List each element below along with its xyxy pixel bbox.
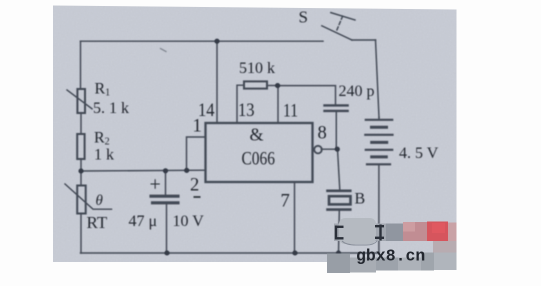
svg-text:C066: C066 bbox=[242, 150, 276, 170]
wire 510k right lead bbox=[267, 85, 278, 87]
node R2/RT bbox=[78, 168, 83, 173]
node top/pin14 bbox=[214, 39, 219, 44]
watermark pink block lower right bbox=[433, 241, 457, 253]
watermark bottom band bbox=[327, 253, 457, 274]
switch S second pole tick bbox=[331, 13, 355, 20]
wire bottom rail bbox=[81, 252, 380, 254]
svg-text:13: 13 bbox=[238, 101, 255, 121]
svg-text:θ: θ bbox=[96, 193, 104, 209]
svg-text:&: & bbox=[250, 125, 264, 145]
node C1 bottom bbox=[164, 250, 169, 255]
svg-text:1: 1 bbox=[193, 117, 202, 137]
capacitor C1 47u plates bbox=[151, 196, 178, 203]
svg-text:RT: RT bbox=[87, 213, 108, 232]
wire node to buzzer bbox=[338, 149, 340, 190]
switch S linkage dashed bbox=[336, 16, 342, 31]
svg-text:4. 5 V: 4. 5 V bbox=[399, 145, 439, 162]
capacitor C2 240p bbox=[325, 105, 348, 111]
svg-text:7: 7 bbox=[281, 192, 290, 212]
wire pin7 bbox=[294, 182, 296, 253]
pin 8 bubble bbox=[314, 146, 322, 154]
wire top rail bbox=[81, 40, 324, 42]
resistor R2 bbox=[77, 134, 84, 159]
buzzer B bbox=[328, 191, 351, 210]
wire node to RT bbox=[80, 171, 82, 186]
node buzzer bottom bbox=[336, 250, 341, 255]
wire left rail upper bbox=[80, 41, 82, 89]
label minus C1 bbox=[194, 196, 201, 198]
svg-text:1 k: 1 k bbox=[94, 147, 114, 164]
watermark clamp mark right bbox=[375, 225, 384, 241]
svg-text:47 μ: 47 μ bbox=[129, 213, 158, 230]
svg-text:510 k: 510 k bbox=[239, 60, 275, 77]
wire C2 to pin8 node bbox=[335, 112, 337, 149]
svg-text:8: 8 bbox=[318, 124, 327, 144]
ic U1 C066 body bbox=[206, 123, 313, 182]
svg-text:5. 1 k: 5. 1 k bbox=[93, 100, 129, 117]
wire pin11 bbox=[277, 86, 279, 123]
watermark mosaic band bbox=[334, 218, 457, 245]
capacitor C1 47u leads bbox=[165, 171, 167, 195]
wire battery to bottom rail bbox=[378, 164, 380, 253]
wire top rail right of switch bbox=[352, 39, 376, 41]
svg-text:10 V: 10 V bbox=[173, 213, 205, 230]
svg-text:gbx8.cn: gbx8.cn bbox=[356, 247, 425, 266]
svg-text:11: 11 bbox=[283, 102, 298, 122]
stray mark bbox=[161, 49, 167, 52]
wire right rail bbox=[376, 40, 380, 117]
svg-text:B: B bbox=[355, 191, 366, 208]
battery BT 4.5V bbox=[365, 117, 392, 164]
watermark clamp mark left bbox=[335, 226, 344, 240]
svg-text:240 p: 240 p bbox=[339, 83, 375, 100]
wire 510k node to C2 bbox=[278, 86, 336, 105]
node 510k/pin11 bbox=[275, 83, 280, 88]
switch S blade bbox=[322, 26, 352, 40]
svg-text:S: S bbox=[299, 8, 308, 27]
node pin8 bbox=[335, 147, 340, 152]
resistor R1 bbox=[67, 89, 92, 113]
wire R1 to R2 bbox=[80, 113, 82, 134]
svg-text:2: 2 bbox=[190, 176, 199, 196]
wire buzzer to bottom rail bbox=[338, 211, 341, 253]
wire pin14 bbox=[216, 41, 218, 123]
wire R2 to node bbox=[80, 159, 82, 171]
wire RT to bottom rail bbox=[80, 214, 82, 254]
node pin7 bottom bbox=[292, 250, 297, 255]
wire pin1 jog bbox=[187, 137, 206, 171]
wire pin8 to node bbox=[321, 148, 337, 150]
node pin1/pin2 bbox=[184, 168, 189, 173]
resistor R3 510k bbox=[244, 81, 267, 88]
wire pin13 to 510k bbox=[237, 85, 244, 123]
thermistor RT bbox=[65, 184, 112, 214]
node C1 top bbox=[163, 168, 168, 173]
svg-text:+: + bbox=[150, 174, 161, 196]
wire node to pin2 bbox=[81, 169, 206, 172]
